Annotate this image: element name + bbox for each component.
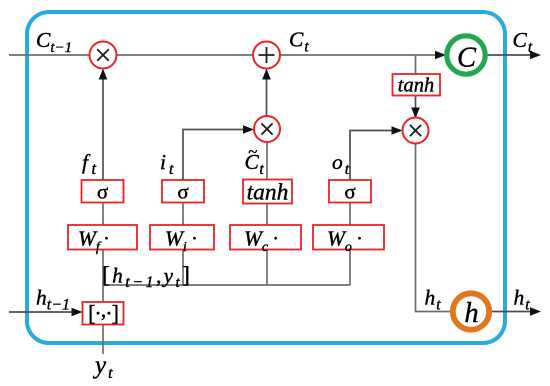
svg-text:σ: σ	[177, 180, 188, 204]
svg-text:Wc·: Wc·	[244, 227, 279, 256]
svg-text:ot: ot	[332, 150, 350, 178]
svg-text:σ: σ	[344, 180, 355, 204]
svg-text:tanh: tanh	[247, 180, 289, 206]
svg-text:ht: ht	[425, 286, 442, 314]
svg-text:Ct: Ct	[289, 28, 309, 56]
svg-text:ft: ft	[82, 150, 96, 178]
svg-text:~: ~	[248, 142, 257, 161]
svg-text:it: it	[160, 150, 174, 178]
svg-text:σ: σ	[97, 180, 108, 204]
svg-text:tanh: tanh	[398, 75, 434, 97]
svg-text:[ht−1,yt]: [ht−1,yt]	[102, 263, 190, 292]
svg-text:h: h	[464, 298, 478, 329]
svg-text:ht: ht	[514, 286, 531, 314]
svg-text:Ct−1: Ct−1	[36, 28, 72, 56]
svg-text:Wi·: Wi·	[165, 227, 198, 256]
svg-text:ht−1: ht−1	[36, 286, 70, 314]
svg-text:Ct: Ct	[513, 28, 533, 56]
svg-text:[·,·]: [·,·]	[88, 297, 118, 326]
svg-text:yt: yt	[92, 352, 113, 382]
svg-text:Wf·: Wf·	[78, 227, 110, 256]
svg-text:C: C	[457, 43, 477, 74]
